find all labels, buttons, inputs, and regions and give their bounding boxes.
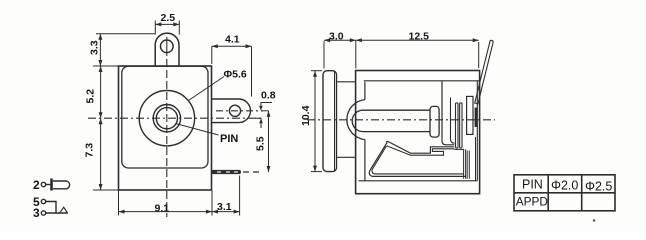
front view: right tab (stadium) xyxy=(212,99,251,123)
barrel body xyxy=(53,181,70,189)
front view: outer circle phi5.6 xyxy=(139,91,194,146)
side view: barrel tube xyxy=(352,110,430,131)
side view: contact plate 1 xyxy=(456,103,459,148)
wire from pin 2 to barrel xyxy=(46,184,51,186)
side view: tube end cap xyxy=(430,106,439,137)
side view: spring contact inner edge xyxy=(372,146,464,174)
side view: inner left wall above mouth xyxy=(364,82,366,100)
svg-text:5.2: 5.2 xyxy=(85,89,97,104)
wire from pin 3 xyxy=(46,212,68,214)
front view: vertical centerline xyxy=(166,37,168,56)
dimension 3.1 (pin extension) xyxy=(212,176,240,216)
front view: inner pin circle xyxy=(156,108,177,129)
dimension 5.2 (top to centerline) xyxy=(85,66,119,118)
right tab hole centerline xyxy=(216,110,263,112)
svg-text:2: 2 xyxy=(33,178,40,192)
dimension 4.1 (tab length) xyxy=(212,34,252,97)
speck artifact xyxy=(593,219,595,221)
svg-text:APPD: APPD xyxy=(516,195,548,209)
front view: outer body xyxy=(119,66,212,190)
label PIN with leader xyxy=(176,124,239,146)
svg-text:PIN: PIN xyxy=(220,133,238,145)
svg-text:5.5: 5.5 xyxy=(255,136,267,151)
side view: contact riser v2 xyxy=(451,98,455,144)
side view: spring right end verticals xyxy=(464,149,466,178)
svg-text:4.1: 4.1 xyxy=(225,34,240,46)
front view: bottom terminal pin (hatched bar) xyxy=(212,170,242,174)
dimension 9.1 (body width) xyxy=(119,190,213,216)
dimension 12.5 (body length) xyxy=(356,31,479,69)
dimension 10.4 (flange height) xyxy=(300,71,322,172)
side view: rear terminal (dark) xyxy=(475,108,478,127)
side view: front flange xyxy=(323,71,337,172)
dimension 7.3 (centerline to bottom) xyxy=(84,118,119,190)
switch contact chevron on pin 3 wire xyxy=(60,207,68,213)
pin terminal centerline dashes xyxy=(243,171,262,173)
side view: contact plate 3 xyxy=(467,96,473,134)
side view: inner left wall below mouth xyxy=(364,140,366,181)
side view: neck bottom line xyxy=(337,156,356,158)
side view: spring contact outer edge xyxy=(369,142,466,176)
front view: middle circle xyxy=(153,105,180,132)
front view: right tab hole xyxy=(229,105,240,116)
schematic symbol: pin 3 terminal circle xyxy=(41,211,45,215)
svg-text:Φ2.5: Φ2.5 xyxy=(585,180,612,194)
svg-text:2.5: 2.5 xyxy=(161,12,176,24)
svg-text:10.4: 10.4 xyxy=(300,105,312,126)
side view: right strip 2 xyxy=(467,151,469,179)
dimension 2.5 (ear width) xyxy=(155,12,179,35)
svg-text:Φ5.6: Φ5.6 xyxy=(224,69,247,81)
side view: inner right wall lower pair xyxy=(475,137,477,181)
side view: neck top line xyxy=(337,81,356,83)
svg-text:PIN: PIN xyxy=(522,178,543,192)
side view: mouth arc xyxy=(347,100,365,140)
side view: inner bottom wall xyxy=(359,180,478,182)
svg-text:9.1: 9.1 xyxy=(155,203,170,215)
side view: spring right slant lower xyxy=(387,146,455,155)
side view: inner top wall xyxy=(364,80,480,82)
side view: inner right wall xyxy=(476,81,478,181)
svg-text:3.3: 3.3 xyxy=(89,40,101,55)
side view: flange inner edge line xyxy=(334,71,336,172)
svg-text:0.8: 0.8 xyxy=(261,89,276,101)
barrel contact bar xyxy=(50,179,53,191)
svg-text:7.3: 7.3 xyxy=(84,143,96,158)
front view: horizontal centerline xyxy=(88,117,264,119)
side view: contact riser v1 xyxy=(442,81,454,145)
side view: spring tail line xyxy=(454,148,464,150)
side view: centerline xyxy=(307,119,495,121)
front view: face rounded rect xyxy=(122,66,208,168)
dimension 3.0 (flange thickness) xyxy=(324,31,356,69)
dimension 3.3 (ear height) xyxy=(89,34,156,66)
label phi5.6 with leader xyxy=(189,69,247,101)
side view: release lever xyxy=(475,40,493,103)
side view: main body xyxy=(356,71,480,194)
dimension 5.5 (tab hole to pin) xyxy=(255,111,271,172)
side view: contact plate 2 xyxy=(460,103,462,148)
svg-text:3: 3 xyxy=(33,206,40,220)
front view: ear hole xyxy=(161,40,174,53)
schematic symbol: pin 2 terminal circle xyxy=(41,182,45,186)
dimension 0.8 (centerline offset) xyxy=(255,89,276,128)
wire from pin 5 down to pin 3 line xyxy=(46,202,56,214)
table: pin size options xyxy=(514,175,615,211)
schematic symbol: pin 5 terminal circle xyxy=(41,199,45,203)
side view: spring right slant upper xyxy=(386,141,454,153)
front view: top mounting ear xyxy=(155,33,179,66)
svg-text:Φ2.0: Φ2.0 xyxy=(551,179,578,193)
